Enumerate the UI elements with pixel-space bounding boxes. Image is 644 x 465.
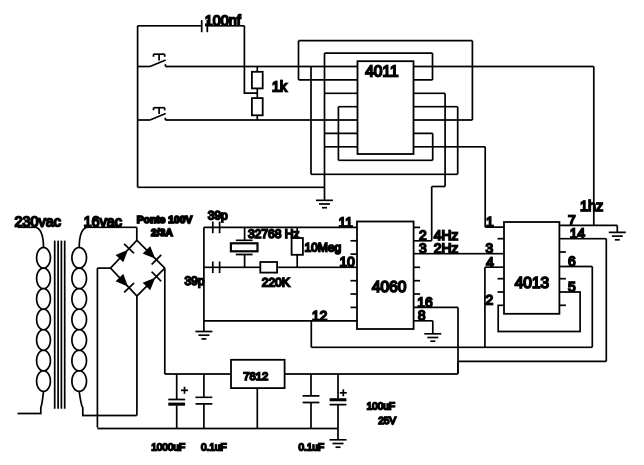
svg-text:4011: 4011 <box>365 64 398 81</box>
capacitor C4 1000uF <box>168 374 188 429</box>
wire net 4Hz jog <box>432 186 445 188</box>
IC U2 4060 box <box>357 222 414 330</box>
4013 left pin ticks <box>498 239 505 292</box>
wire 7812 ground pin <box>256 388 258 428</box>
ground G2 oscillator <box>195 332 212 339</box>
wire oscillator bottom rail segment 2 <box>277 266 357 268</box>
wire pin6 down to bus <box>591 267 593 348</box>
svg-text:25V: 25V <box>378 416 396 427</box>
wire VDD bus horizontal <box>311 346 592 348</box>
wire 4060 pin12 <box>204 320 357 322</box>
wire +V rail to 7812 input <box>165 373 231 375</box>
crystal X1 <box>231 227 258 267</box>
wire 4013 pin1 stub <box>485 226 504 228</box>
4060 right pin ticks <box>414 227 421 294</box>
wire oscillator top rail <box>204 226 357 228</box>
IC U1 4011 box <box>358 61 414 154</box>
wire secondary top to bridge <box>87 226 137 228</box>
wire ground net right vertical <box>432 53 434 80</box>
wire net L4 vertical <box>337 107 339 161</box>
wire 4011 left pin7 stub <box>325 146 358 148</box>
svg-text:39p: 39p <box>208 208 228 222</box>
svg-text:1: 1 <box>486 215 494 230</box>
diode D2 bridge top-right <box>137 240 165 268</box>
svg-text:12: 12 <box>312 308 327 323</box>
svg-text:1hz: 1hz <box>580 199 603 215</box>
transformer T1 core <box>55 241 65 409</box>
capacitor C2 39p top <box>213 222 220 234</box>
wire pin16 vertical to rail <box>457 307 459 374</box>
wire outer loop right vertical <box>471 41 473 120</box>
ground G1 4011 <box>316 200 333 207</box>
wire 4060 pin16 stub <box>414 306 458 308</box>
wire net 4Hz vertical <box>444 93 446 186</box>
wire sw1 branch vertical x311 <box>310 67 312 175</box>
wire 4060 pin3 to 4013 pin3 <box>414 253 504 255</box>
switch S1 <box>138 54 166 66</box>
wire oscillator bottom rail segment 1 <box>204 266 260 268</box>
svg-text:5: 5 <box>568 279 576 294</box>
transformer T1 primary winding <box>18 227 51 413</box>
wire to capacitor C1 <box>138 25 202 27</box>
wire 4013 pin14 stub <box>559 238 606 240</box>
wire corner down to 1k junction <box>244 26 257 93</box>
wire 4011 right pin1 to 1hz <box>414 66 594 68</box>
svg-text:2: 2 <box>486 293 494 308</box>
wire pin8 down to ground <box>432 321 434 334</box>
svg-text:2Hz: 2Hz <box>434 241 459 256</box>
diode D3 bridge bottom-left <box>111 268 137 296</box>
wire 1hz vertical <box>593 67 595 226</box>
svg-text:0.1uF: 0.1uF <box>201 443 227 454</box>
capacitor C3 39p bottom <box>213 262 220 274</box>
wire 7812 output rail <box>285 373 458 375</box>
wire VDD horizontal to pin14 column <box>458 360 606 362</box>
wire 4011 left pin6 stub <box>325 132 358 134</box>
ground G5 supply <box>330 440 347 447</box>
resistor R4 10Meg leads <box>296 227 298 267</box>
wire bridge negative vertical <box>96 268 98 427</box>
regulator U4 7812 box <box>231 360 285 388</box>
wire 100uF ground stem <box>337 429 339 440</box>
wire outer loop top <box>299 40 473 42</box>
svg-text:10: 10 <box>340 255 356 270</box>
wire 4013 pin7 out <box>559 224 617 226</box>
svg-text:39p: 39p <box>185 274 205 288</box>
wire 4011 left pin3 stub <box>325 92 358 94</box>
wire bridge plus vertical <box>164 268 166 374</box>
capacitor C5 0.1uF <box>196 374 213 429</box>
capacitor C1 100nf <box>202 20 208 32</box>
wire net L4 horizontal <box>338 159 432 161</box>
svg-text:0.1uF: 0.1uF <box>299 443 325 454</box>
wire 4060 pin8 stub <box>414 320 433 322</box>
wire pin7 ground stem <box>616 225 618 232</box>
svg-text:10Meg: 10Meg <box>305 240 342 254</box>
wire bridge bottom corner down <box>136 296 138 416</box>
wire 4011 right pin5 stub <box>414 119 473 121</box>
svg-text:100uF: 100uF <box>367 401 395 412</box>
svg-text:1000uF: 1000uF <box>151 443 185 454</box>
svg-text:4013: 4013 <box>515 275 549 292</box>
wire ground net top horizontal <box>325 52 433 54</box>
svg-text:Ponte 100V: Ponte 100V <box>137 215 193 226</box>
wire 4011 right pin4 stub <box>414 106 458 108</box>
diode D1 bridge top-left <box>111 240 137 268</box>
wire oscillator left vertical <box>203 227 205 331</box>
svg-text:4060: 4060 <box>372 279 407 296</box>
wire 4011 left pin2 stub <box>299 79 358 81</box>
ground G3 4060 pin8 <box>424 334 441 341</box>
wire 4060 pin2 stub <box>414 240 432 242</box>
wire net 4Hz down to 4060 pin2 <box>431 187 433 241</box>
wire pin4 down to bus <box>484 267 486 347</box>
wire down to 4013 pin1 <box>484 147 486 227</box>
wire S1 to 4011 left pin1 <box>165 66 357 68</box>
wire net L4 up to right pin6 <box>432 133 434 160</box>
wire C1 to corner <box>207 25 244 27</box>
wire left rail vertical <box>137 26 139 188</box>
wire pin12 junction to bus <box>310 321 312 347</box>
wire 4011 right pin2 stub <box>414 79 433 81</box>
wire bottom of key loop to ground stem <box>138 186 325 188</box>
IC U3 4013 box <box>504 222 559 314</box>
resistor R3 220K <box>260 262 277 273</box>
wire pin14 vertical <box>605 239 607 362</box>
wire S2 to 4011 left pin5 <box>165 119 357 121</box>
capacitor C7 100uF <box>330 374 347 429</box>
wire 4011 right pin6 stub <box>414 132 433 134</box>
wire outer loop left vertical <box>298 41 300 80</box>
ground G4 pin7 <box>609 232 626 239</box>
wire 4011 right pin7 stub <box>414 146 486 148</box>
wire 4013 pin2 to pin5 U-link <box>498 292 580 332</box>
capacitor C6 0.1uF <box>303 374 320 429</box>
wire VDD jog vertical <box>457 361 459 374</box>
wire 4013 pin6 stub <box>559 266 592 268</box>
svg-text:16vac: 16vac <box>84 215 122 231</box>
svg-text:8: 8 <box>418 308 426 323</box>
wire bridge left corner out <box>97 267 110 269</box>
svg-text:100nf: 100nf <box>205 13 242 29</box>
resistor R4 10Meg <box>292 238 303 255</box>
resistor R2 1k lower <box>252 98 263 115</box>
wire sw1 branch up to right pin4 <box>457 107 459 175</box>
svg-text:2/3A: 2/3A <box>151 228 173 239</box>
wire sw1 branch horizontal y174 <box>311 173 458 175</box>
resistor R1 1k upper <box>252 72 263 89</box>
4013 right pin ticks <box>559 252 566 305</box>
svg-text:11: 11 <box>339 215 353 230</box>
transformer T1 secondary winding <box>72 227 137 415</box>
wire 4011 left pin4 stub <box>338 106 357 108</box>
wire 1k resistor leads <box>256 67 258 121</box>
wire 4011 ground stem <box>324 53 326 200</box>
diode D4 bridge bottom-right <box>137 268 165 296</box>
svg-text:220K: 220K <box>262 276 290 290</box>
switch S2 <box>138 108 166 120</box>
svg-text:1k: 1k <box>272 80 288 96</box>
wire 4013 pin4 stub <box>485 266 504 268</box>
svg-text:7812: 7812 <box>243 371 268 383</box>
4060 left pin ticks <box>351 241 358 308</box>
wire 4011 right pin3 stub <box>414 92 446 94</box>
svg-text:3: 3 <box>419 241 427 256</box>
wire bottom ground bus <box>97 428 338 430</box>
